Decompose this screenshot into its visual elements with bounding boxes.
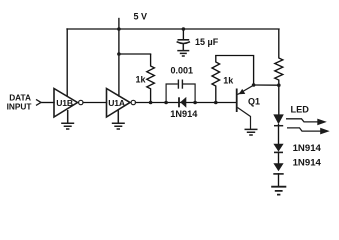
svg-text:1N914: 1N914: [293, 158, 322, 169]
transistor Q1: [237, 85, 254, 129]
node junction C2 left: [164, 101, 168, 105]
node junction emitter: [252, 83, 256, 87]
input arrow: [36, 99, 41, 105]
diode D4 1N914: [273, 163, 283, 174]
capacitor C1 15uF: [177, 40, 190, 44]
svg-text:1k: 1k: [136, 75, 147, 85]
ground at LED chain bottom: [271, 187, 286, 195]
label DATA INPUT: [7, 92, 32, 111]
diode D3 1N914: [273, 144, 283, 153]
wire emitter node to LED column node: [254, 84, 279, 86]
wire LED column segments: [278, 85, 280, 186]
wire capacitor C1 lead: [182, 29, 184, 40]
svg-text:1N914: 1N914: [293, 143, 322, 154]
svg-text:U1B: U1B: [56, 98, 73, 108]
diode D1 1N914 (horizontal): [179, 97, 186, 108]
svg-text:INPUT: INPUT: [7, 101, 32, 111]
resistor R1 1k (left): [147, 54, 155, 103]
wire bracket R2 top to emitter node: [216, 56, 254, 86]
wire bracket from node to R1 top: [119, 53, 151, 55]
svg-text:1N914: 1N914: [170, 109, 198, 119]
node junction C2 right: [193, 101, 197, 105]
wire top 5V rail: [67, 28, 279, 30]
wire left drop from rail to U1B top: [66, 29, 68, 96]
capacitor C2 0.001: [166, 80, 195, 103]
node junction rail/C1: [182, 27, 186, 31]
wire main line U1A output to Q1 base: [136, 102, 237, 104]
wire data input to U1B: [41, 102, 54, 104]
svg-text:U1A: U1A: [108, 98, 125, 108]
node junction R2 bottom: [214, 101, 218, 105]
node junction R1 bracket: [117, 52, 121, 56]
svg-text:0.001: 0.001: [171, 66, 194, 76]
inverter U1B: [54, 89, 83, 118]
ground at U1B: [61, 110, 74, 129]
ground at U1A: [112, 110, 125, 129]
ground at C1: [177, 44, 189, 57]
LED light arrow upper: [286, 119, 327, 126]
resistor R2 1k (right): [212, 56, 220, 103]
wire U1B output to U1A input: [83, 102, 106, 104]
node junction R1 bottom: [149, 101, 153, 105]
ground at Q1: [245, 129, 258, 135]
LED light arrow lower: [287, 128, 330, 135]
node junction LED column: [277, 83, 281, 87]
svg-text:5 V: 5 V: [134, 12, 148, 22]
power 5V stub: [118, 19, 120, 30]
LED D2: [273, 114, 284, 125]
wire mid drop from rail through node to U1A top: [118, 29, 120, 96]
svg-text:15 µF: 15 µF: [195, 37, 219, 47]
svg-text:LED: LED: [291, 105, 310, 115]
svg-text:1k: 1k: [223, 76, 234, 86]
node junction rail/5V: [117, 27, 121, 31]
svg-text:Q1: Q1: [248, 96, 260, 106]
resistor R3 (LED chain): [275, 29, 283, 85]
inverter U1A: [107, 89, 136, 118]
